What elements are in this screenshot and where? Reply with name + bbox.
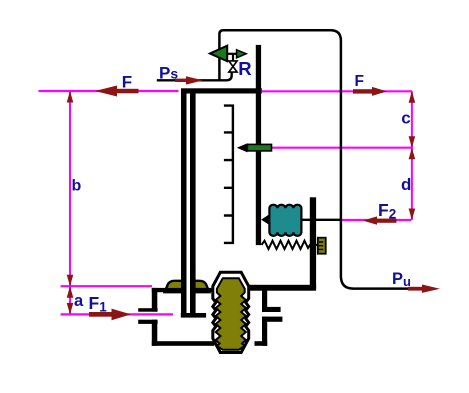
force line F1 (magenta) xyxy=(61,313,173,315)
svg-text:F: F xyxy=(122,73,132,92)
housing right wall lower xyxy=(262,317,267,346)
svg-text:c: c xyxy=(401,108,410,127)
arrow F1 xyxy=(89,312,112,317)
svg-text:Pu: Pu xyxy=(392,270,411,289)
flapper top plate xyxy=(181,88,262,93)
pointer body (green) xyxy=(247,144,271,151)
fixed post xyxy=(310,197,316,288)
housing right port bar upper xyxy=(262,307,281,312)
svg-text:F: F xyxy=(355,73,364,90)
dim arrow d bottom xyxy=(409,209,416,221)
spring anchor block xyxy=(318,238,326,254)
dim arrow a bottom xyxy=(67,303,74,315)
arrow F left xyxy=(116,89,139,94)
force line F right (magenta) xyxy=(262,90,412,92)
svg-text:d: d xyxy=(401,175,411,194)
housing bottom-right line xyxy=(255,341,268,346)
svg-text:Ps: Ps xyxy=(159,63,178,82)
housing top-left line xyxy=(152,288,214,292)
dimension line b/a (magenta vertical left) xyxy=(69,91,71,314)
feedback loop pipe (nozzle back-pressure to output) xyxy=(219,30,423,288)
dimension line c/d (magenta vertical right) xyxy=(411,91,413,220)
wire valve to nozzle branch xyxy=(232,54,234,61)
wire between green triangles xyxy=(227,53,238,55)
dim arrow a top xyxy=(67,286,74,298)
flapper rod gap (white) xyxy=(187,94,191,314)
restrictor valve R: bowtie xyxy=(229,61,237,72)
flapper rod left wall xyxy=(181,94,187,314)
arrow Ps xyxy=(175,79,188,82)
housing left port bar lower xyxy=(138,320,157,324)
force line F left (magenta) xyxy=(39,90,179,92)
arrow F2 xyxy=(377,219,397,223)
svg-text:a: a xyxy=(74,292,84,310)
housing bottom-left line xyxy=(152,341,215,346)
restrictor valve R: outlet triangle xyxy=(237,50,247,58)
arrow F right xyxy=(353,89,372,93)
force beam xyxy=(256,45,261,245)
arrow Pu xyxy=(408,287,422,291)
housing-top level line (magenta) xyxy=(61,285,152,287)
flapper rod right wall xyxy=(190,94,196,314)
restrictor valve R: inlet triangle xyxy=(210,46,227,62)
supply line Ps xyxy=(157,72,232,80)
housing right port bar lower xyxy=(262,317,282,322)
measuring capsule outer shell xyxy=(213,272,249,352)
feedback bellows tip xyxy=(261,214,269,225)
wire bellows to feedback pipe xyxy=(301,219,342,221)
dim arrow b bottom xyxy=(67,275,74,287)
pointer tip xyxy=(237,143,248,152)
dim arrow c bottom xyxy=(409,136,416,148)
diaphragm dome xyxy=(165,281,210,292)
dim arrow d top xyxy=(409,148,416,160)
housing left port bar upper xyxy=(138,308,157,312)
zero spring xyxy=(262,241,318,249)
dim arrow b top xyxy=(67,91,74,103)
svg-text:b: b xyxy=(72,178,82,195)
housing top-right line xyxy=(246,285,316,291)
scale ruler with ticks xyxy=(224,106,233,243)
pointer line (magenta) xyxy=(272,147,412,149)
measuring capsule bellows (olive) xyxy=(216,278,246,350)
flapper rod foot xyxy=(181,313,206,318)
dim arrow c top xyxy=(409,91,416,103)
housing left wall lower xyxy=(152,320,158,346)
force line F2 (magenta) xyxy=(342,219,411,221)
svg-text:R: R xyxy=(238,58,251,79)
housing right wall upper xyxy=(262,286,267,312)
feedback bellows (teal) xyxy=(269,205,301,236)
housing left wall upper xyxy=(152,288,158,312)
